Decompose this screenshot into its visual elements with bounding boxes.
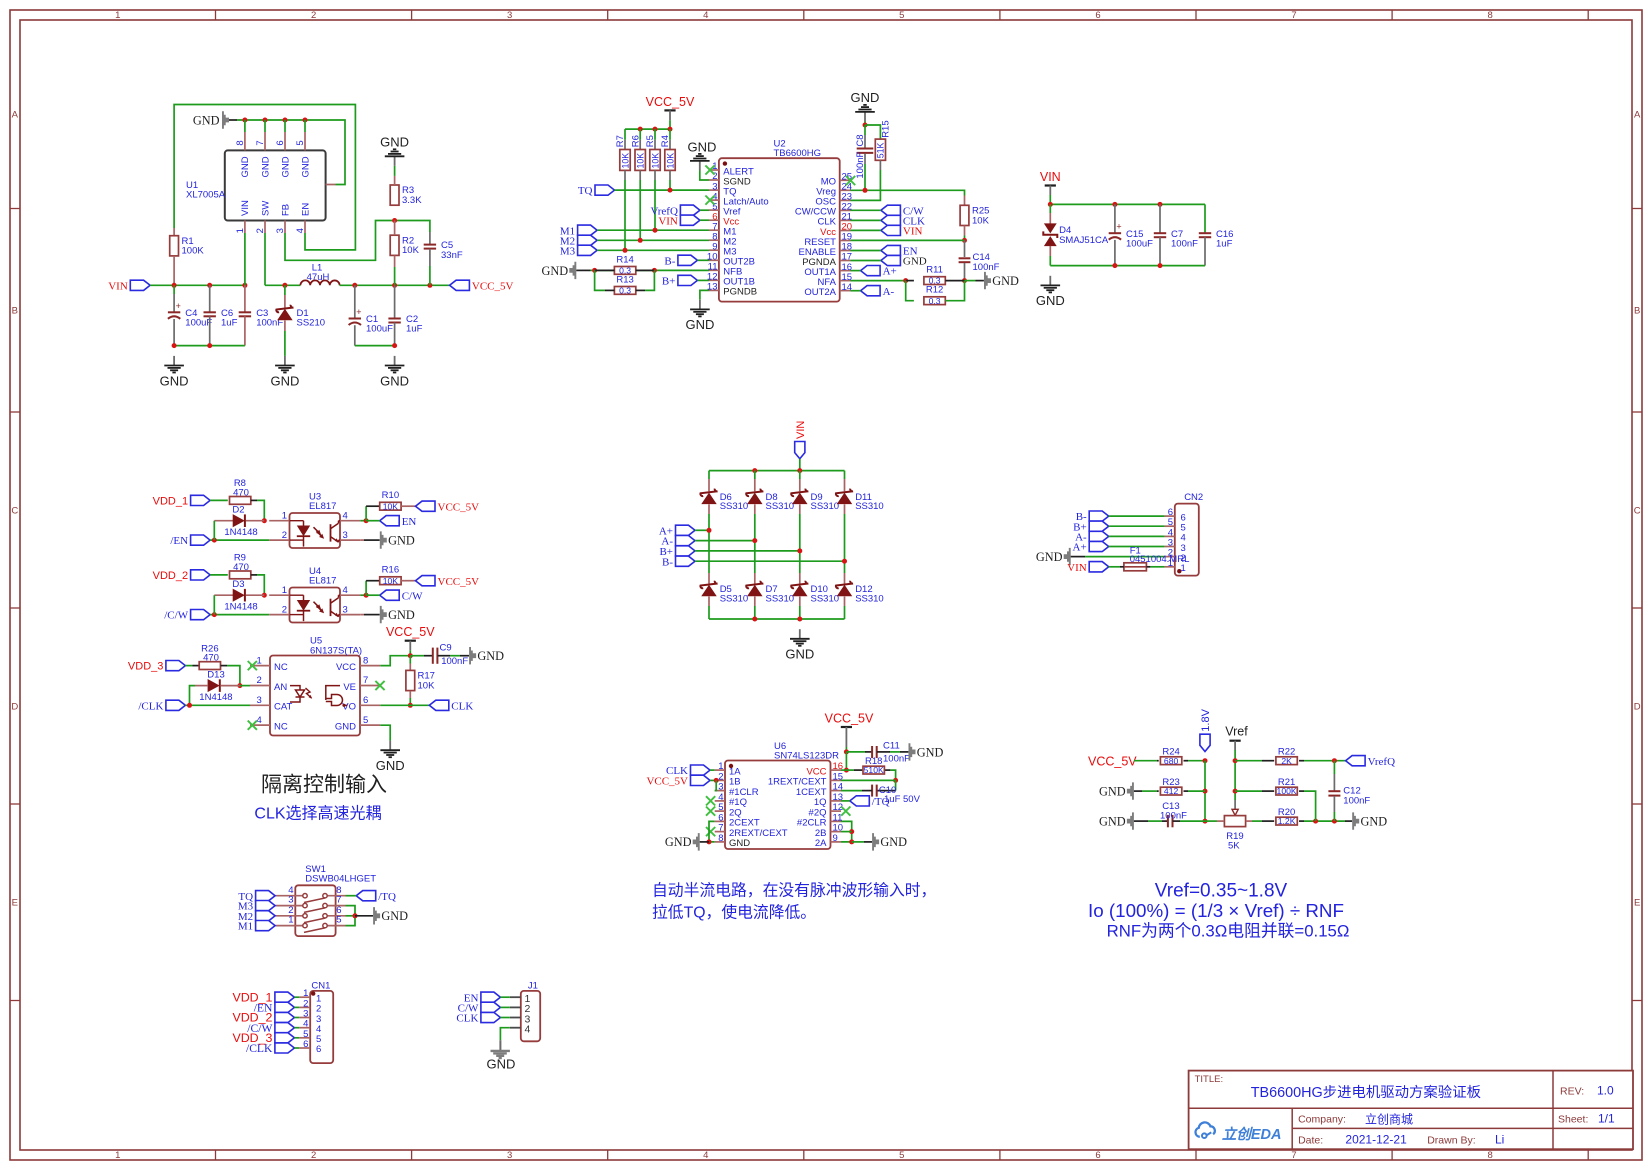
ground flag GND at R14 [541,262,576,279]
wire gndflag-R14 [576,269,590,271]
no-connect X U2 pin25 nc [846,176,855,185]
wire C/W j1 wire [500,1006,509,1008]
svg-text:GND: GND [280,156,291,177]
wire NFB wire [591,269,709,271]
wire U1 top gnd rail [237,120,345,185]
svg-text:R21: R21 [1278,777,1295,788]
wire R17 bot lead [409,691,411,698]
resistor R3 [390,185,422,206]
wire A- bridge wire [695,540,755,542]
svg-text:SN74LS123DR: SN74LS123DR [774,750,839,761]
wire B+ bridge wire [695,550,800,552]
svg-text:3: 3 [257,695,262,706]
wire B+ [697,279,709,281]
wire D11 top lead [844,471,846,479]
wire R5 bot wire [654,180,656,230]
svg-text:VCC_5V: VCC_5V [1088,754,1137,768]
wire D9 top lead [799,471,801,479]
wire D5 top lead [708,573,710,584]
wire EN [851,250,881,252]
wire /EN cn1 wire [294,1006,299,1008]
resistor R4 [660,135,675,170]
ground GND above SGND pin2 [690,154,710,171]
wire D4 bot lead [1049,246,1051,256]
svg-text:REV:: REV: [1560,1086,1584,1098]
net flag TQ [238,891,275,903]
svg-text:GND: GND [381,909,408,923]
svg-text:0.3: 0.3 [619,286,631,296]
lead R18 l [854,769,862,771]
wire B- cn2 wire [1109,515,1165,517]
ground GND above R3 [380,135,409,166]
stem gnd nfa [976,280,984,282]
capacitor C6 [204,308,238,329]
capacitor C7 [1154,229,1198,250]
junction cbus1 [172,343,177,348]
junction c8 top [863,123,868,128]
svg-text:GND: GND [376,758,405,773]
net flag M1 [560,225,597,237]
svg-text:VE: VE [343,682,356,693]
svg-text:1: 1 [257,655,262,666]
wire C1C2 bottom bus [355,345,395,347]
lead C13 l [1162,820,1168,822]
net flag VCC_5V [646,775,710,787]
wire D5 bot wire [708,606,710,619]
wire R5 top wire [654,129,656,140]
svg-text:CLK: CLK [456,1013,478,1025]
fuse F1 [1120,545,1189,571]
svg-text:47uH: 47uH [307,272,330,283]
net flag VDD_2 [153,570,210,582]
wire r21 out [1304,791,1316,821]
svg-text:GND: GND [380,373,409,388]
net flag VrefQ [1346,756,1395,768]
junction u5 vcc j [408,653,413,658]
U4 pins [269,585,360,615]
svg-text:2A: 2A [815,838,827,849]
net flag /C/W [247,1022,294,1035]
wire R13 loop right [645,270,654,290]
wire R15 bot wire [851,170,881,200]
wire U5 vcc wire [380,656,410,666]
junction top pin8 [242,118,247,123]
wire C9 in [410,655,424,657]
lead D13 an [195,685,208,687]
wire D1 top lead [284,285,286,295]
resistor R26 [199,643,220,669]
wire VIN pin6 [700,219,709,221]
wire D6 top lead2 [708,479,710,491]
svg-text:51K: 51K [876,143,886,159]
net flag VCC_5V [450,280,514,292]
svg-text:GND: GND [486,1057,515,1072]
svg-text:5: 5 [336,915,341,926]
svg-text:2: 2 [311,1150,316,1161]
capacitor C8 [855,134,874,178]
svg-text:A-: A- [883,286,895,298]
net flag A+ [1073,541,1109,553]
lead R20 r [1299,820,1304,822]
resistor R10 [380,490,401,511]
svg-text:GND: GND [992,274,1019,288]
ground GND above C8 [851,90,880,121]
ground flag GND U3 [380,531,415,548]
svg-text:GND: GND [880,835,907,849]
resistor R11 [924,265,945,286]
resistor R12 [924,285,945,306]
svg-text:5: 5 [295,140,306,145]
svg-text:GND: GND [1099,815,1126,829]
svg-text:100K: 100K [182,246,205,257]
resistor R22 [1276,746,1297,765]
svg-text:GND: GND [1361,815,1388,829]
wire u6 2cext gnd [709,821,715,842]
junction bbr1 [752,617,757,622]
resistor R16 [380,564,401,585]
lead R21 r [1299,790,1304,792]
wire C8 top stem2 [864,135,866,148]
IC U4 [290,566,341,623]
wire D11 bot lead [844,504,846,514]
net flag A+ [659,525,695,537]
U5 right pins [335,655,380,732]
wire NFA wire [851,280,906,282]
resistor R17 [406,670,435,691]
stem gnd U3 [360,539,379,541]
resistor R9 [230,553,251,579]
svg-text:SS310: SS310 [766,501,795,512]
svg-text:R15: R15 [881,120,892,137]
wire D6 bot wire [708,514,710,530]
net flag GND [881,255,927,267]
ground flag GND c13 [1099,812,1134,829]
wire cn2 f1 wire [1150,566,1164,568]
net flag A- [861,286,895,298]
svg-text:VIN: VIN [658,215,678,227]
junction top pin7 [263,118,268,123]
svg-text:10K: 10K [620,153,630,169]
capacitor C5 [424,240,463,261]
svg-text:/CLK: /CLK [246,1042,273,1055]
wire R15 bot lead [879,160,881,170]
junction U3 r-up [364,518,369,523]
lead C10 l [862,790,872,792]
svg-text:CN2: CN2 [1184,492,1203,503]
svg-text:CLK: CLK [451,700,473,712]
U5 internals [290,686,347,707]
svg-text:7: 7 [1291,10,1296,21]
lead R18 r [885,769,890,771]
wire R4 top lead [669,140,671,150]
svg-text:GND: GND [380,135,409,150]
wire c13 out [1180,820,1205,822]
svg-text:B: B [12,306,18,317]
wire R9 out [257,575,264,595]
net flag B- [1076,511,1109,523]
wire C9 out [450,655,460,657]
svg-text:1: 1 [115,1150,120,1161]
wire r18 out [890,770,895,780]
svg-text:C: C [11,505,18,516]
wire PGNDB wire [700,290,709,299]
wire A+ [851,270,861,272]
wire D12 top lead [844,573,846,584]
diode D1 [276,305,325,329]
wire c12 bot stem [1333,796,1335,812]
wire A- [851,290,861,292]
svg-text:1N4148: 1N4148 [224,527,257,538]
lead R26 r [221,665,227,667]
wire C4 stem bot [173,319,175,346]
net flag C/W [881,205,924,217]
wire C3 stem bot [244,316,246,345]
svg-text:10K: 10K [972,215,990,226]
wire C8 bot wire [864,164,866,190]
TVS diode D4 [1043,223,1109,246]
svg-text:Date:: Date: [1298,1135,1323,1147]
junction rail C1 [352,283,357,288]
lead R11 l [906,280,914,282]
svg-text:VIN: VIN [1067,562,1087,574]
svg-text:VCC_5V: VCC_5V [472,280,514,292]
stem sw gnd [355,915,373,917]
wire U4 pin4 wire [360,594,366,596]
svg-text:EN: EN [402,516,417,528]
svg-text:/CLK: /CLK [138,700,163,712]
junction bbr2 [797,617,802,622]
svg-text:1: 1 [288,915,293,926]
svg-text:VCC_5V: VCC_5V [386,625,435,639]
IC J1 connector [521,980,540,1041]
power flag VCC_5V U5 [386,625,435,656]
junction vref r22 [1233,758,1238,763]
svg-text:A+: A+ [883,266,897,278]
svg-text:Io (100%) = (1/3 × Vref) ÷ RNF: Io (100%) = (1/3 × Vref) ÷ RNF [1088,900,1344,921]
svg-text:EL817: EL817 [309,576,336,587]
wire D11 top lead2 [844,479,846,491]
svg-text:4: 4 [703,10,708,21]
U4 internals [290,595,341,621]
wire r22 in [1235,760,1262,762]
U2 right pins [795,172,852,298]
net flag B+ [1073,521,1109,533]
resistor R21 [1276,777,1297,796]
svg-text:6: 6 [316,1044,321,1055]
wire CLK j1 wire [500,1017,509,1019]
svg-text:SS310: SS310 [720,593,749,604]
junction sw gnd j [353,913,358,918]
junction top pin6 [283,118,288,123]
svg-text:VDD_1: VDD_1 [153,496,188,508]
junction U4 d-r [262,593,267,598]
ground flag GND r23 [1099,782,1134,799]
svg-text:14: 14 [842,282,853,293]
svg-text:DSWB04LHGET: DSWB04LHGET [305,873,376,884]
svg-text:100nF: 100nF [973,262,1000,273]
svg-text:4: 4 [343,511,348,522]
wire bridge top rail [709,470,845,472]
wire c11 in [846,751,865,753]
svg-text:100uF: 100uF [1126,238,1153,249]
svg-text:6: 6 [275,140,286,145]
lead R24 r [1184,760,1189,762]
svg-text:E: E [12,898,18,909]
net flag VIN [795,421,807,459]
lead C10 r [877,790,896,792]
wire C caps bottom bus [174,345,245,347]
svg-text:10K: 10K [383,501,399,511]
svg-text:33nF: 33nF [441,250,463,261]
svg-text:0451004.MRL: 0451004.MRL [1130,554,1190,565]
wire R6 top wire [639,129,641,140]
svg-text:XL7005A: XL7005A [186,190,226,201]
CN2 pins [1165,507,1186,574]
svg-text:立创EDA: 立创EDA [1222,1126,1282,1143]
wire u6 pin15 wire [841,779,896,781]
svg-text:3: 3 [507,1150,512,1161]
diode D9 [791,489,839,512]
svg-text:NC: NC [274,721,288,732]
lead R24 l [1157,760,1159,762]
wire R6 top lead [639,140,641,150]
net flag A- [1075,531,1109,543]
junction vr1 [1048,202,1053,207]
svg-text:VCC_5V: VCC_5V [646,776,688,788]
lead R19 r [1246,820,1252,822]
net flag M1 [238,921,275,933]
stem cn2 gnd [1071,556,1085,558]
junction bus R5 [653,127,658,132]
svg-text:VDD_3: VDD_3 [128,661,163,673]
resistor R14 [614,254,635,275]
wire VIN rail [150,284,245,286]
wire vref wiper v2 [1234,800,1236,810]
wire R4 bot wire [669,180,671,190]
svg-text:1uF: 1uF [1216,238,1233,249]
junction rail R2C2 [392,283,397,288]
wire D7 bot wire [754,606,756,619]
wire D13 an wire [190,686,196,706]
IC CN2 connector [1175,492,1203,575]
net flag /TQ [850,796,890,808]
svg-text:100uF: 100uF [185,318,212,329]
wire R2 bot wire [394,267,396,285]
svg-text:7: 7 [255,140,266,145]
capacitor C1 [349,307,394,335]
lead C11 r [877,751,890,753]
svg-text:VIN: VIN [1040,170,1061,184]
wire /C/W wire [210,614,269,616]
svg-text:GND: GND [729,838,750,849]
svg-text:M1: M1 [238,921,253,933]
svg-text:SS210: SS210 [297,317,326,328]
wire c12 bot stem2 [1333,812,1335,821]
svg-text:5: 5 [899,1150,904,1161]
wire sw pin6 wire [346,915,356,917]
net flag M2 [560,235,597,247]
junction bus R4 [668,127,673,132]
svg-text:R12: R12 [926,285,943,296]
wire U3 pin4 wire [360,520,366,522]
stem u6 gndr [864,841,872,843]
net flag B- [664,255,697,267]
junction r23 j [1203,789,1208,794]
wire VIN top rail [1050,203,1205,205]
wire A+ cn2 wire [1109,546,1165,548]
svg-text:TITLE:: TITLE: [1195,1074,1224,1085]
svg-text:100nF: 100nF [1171,238,1198,249]
wire R7 top wire [624,129,626,140]
stem gnd C9 [460,655,469,657]
no-connect X U5 pin4 nc [248,721,257,730]
CN1 pins [299,988,321,1055]
wire c12 top stem2 [1333,774,1335,791]
junction A+ j [707,528,712,533]
resistor R8 [230,478,251,504]
wire C/W [851,209,881,211]
net flag /CLK [246,1042,294,1055]
svg-text:9: 9 [833,833,838,844]
svg-text:3.3K: 3.3K [402,195,422,206]
svg-text:/TQ: /TQ [378,891,396,903]
svg-text:PGNDB: PGNDB [723,287,757,298]
svg-text:SMAJ51CA: SMAJ51CA [1059,235,1109,246]
J1 pins [510,993,531,1036]
wire c13 gnd wire [1148,820,1162,822]
wire C14 top stem [964,240,966,257]
diode D6 [700,489,748,512]
wire C16 stem bot [1204,237,1206,266]
svg-text:100nF: 100nF [883,753,910,764]
wire C/W [366,594,380,596]
wire R1 top lead [173,228,175,236]
ground flag GND right of R11 [984,272,1019,289]
svg-text:Drawn By:: Drawn By: [1427,1135,1475,1147]
lead D2 an [214,520,233,522]
svg-text:GND: GND [160,373,189,388]
junction top pin5 [303,118,308,123]
wire r23 out [1188,790,1205,792]
junction M1 R5 [653,228,658,233]
svg-text:+: + [1116,222,1121,232]
junction TQ R4 [668,188,673,193]
junction r21 gnd j [1313,819,1318,824]
wire R5 top lead [654,140,656,150]
wire SGND wire [700,171,709,181]
svg-text:J1: J1 [528,980,538,991]
wire R17 bot [409,698,411,705]
svg-text:6N137S(TA): 6N137S(TA) [310,645,362,656]
wire C15 stem bot [1114,240,1116,266]
wire EN [366,520,380,522]
svg-text:VIN: VIN [795,421,807,439]
svg-text:5K: 5K [1228,841,1240,852]
wire r19-r20 [1252,820,1262,822]
svg-text:1uF: 1uF [406,324,423,335]
wire C2 stem top [394,285,396,318]
svg-text:C9: C9 [440,643,452,654]
junction R25 reset [962,238,967,243]
wire R4 top wire [669,129,671,140]
svg-text:EN: EN [300,203,311,216]
svg-text:D13: D13 [207,669,224,680]
svg-text:D: D [11,701,18,712]
IC U1 XL7005A [186,150,326,220]
wire D10 bot wire [799,606,801,619]
net flag C/W [380,590,423,602]
svg-text:+: + [356,307,361,317]
